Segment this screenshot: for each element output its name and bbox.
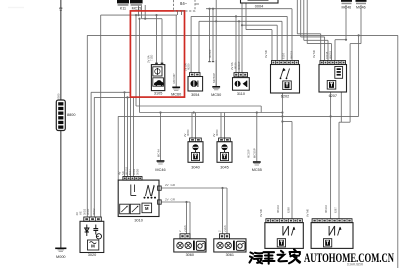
svg-text:VE: VE: [78, 211, 82, 215]
svg-text:M6102: M6102: [276, 205, 280, 213]
svg-text:6202: 6202: [281, 94, 289, 98]
svg-text:3040: 3040: [191, 165, 199, 169]
svg-text:K11: K11: [120, 7, 126, 11]
svg-text:M: M: [145, 206, 149, 211]
svg-text:+VAN: +VAN: [223, 225, 227, 232]
svg-text:MC50P: MC50P: [237, 61, 241, 70]
svg-text:30D2: 30D2: [83, 208, 87, 215]
svg-text:713D: 713D: [150, 55, 154, 61]
svg-text:610S: 610S: [281, 53, 285, 59]
svg-text:30D2: 30D2: [132, 168, 136, 175]
svg-text:NR: NR: [121, 171, 125, 175]
svg-text:2V: 2V: [165, 183, 169, 187]
svg-text:6267: 6267: [334, 207, 338, 213]
svg-text:MC50P: MC50P: [212, 73, 216, 83]
svg-text:6207: 6207: [329, 94, 337, 98]
svg-text:3020: 3020: [88, 253, 96, 257]
svg-text:M050: M050: [186, 129, 190, 136]
svg-text:3110: 3110: [237, 92, 245, 96]
svg-text:M050: M050: [215, 129, 219, 136]
svg-text:MC46: MC46: [356, 6, 366, 10]
svg-text:16018: 16018: [325, 51, 329, 59]
svg-text:6V M0: 6V M0: [305, 208, 309, 217]
svg-text:D3ARJB5R: D3ARJB5R: [347, 263, 364, 267]
svg-text:B80: B80: [56, 93, 60, 98]
svg-text:M: M: [91, 244, 95, 249]
svg-text:MC60P: MC60P: [172, 73, 176, 83]
svg-text:M6102: M6102: [125, 167, 129, 175]
svg-text:M150: M150: [233, 62, 237, 69]
svg-text:84–: 84–: [180, 1, 188, 6]
svg-text:0004: 0004: [255, 5, 263, 9]
svg-text:6017: 6017: [128, 169, 132, 175]
svg-text:6268: 6268: [287, 207, 291, 213]
svg-text:6V M0: 6V M0: [259, 208, 263, 217]
svg-text:MC46: MC46: [342, 6, 352, 10]
svg-text:MC55P: MC55P: [247, 149, 251, 158]
svg-text:M250: M250: [186, 63, 190, 70]
svg-text:6V M0: 6V M0: [312, 49, 316, 58]
svg-text:3105: 3105: [154, 92, 162, 96]
svg-text:+VAN: +VAN: [183, 225, 187, 232]
svg-text:3045: 3045: [220, 165, 228, 169]
svg-text:M6018: M6018: [289, 51, 293, 59]
svg-text:3010: 3010: [134, 218, 142, 222]
svg-text:3054: 3054: [191, 93, 199, 97]
svg-text:MC55P: MC55P: [253, 148, 257, 158]
svg-text:4V: 4V: [118, 171, 122, 175]
svg-text:MC55: MC55: [252, 168, 262, 172]
svg-text:MC4A: MC4A: [156, 149, 160, 157]
svg-text:MC50: MC50: [211, 93, 221, 97]
svg-text:M302: M302: [92, 208, 96, 215]
svg-text:M6102: M6102: [324, 205, 328, 213]
svg-text:MC60: MC60: [171, 92, 181, 96]
svg-text:MC50P: MC50P: [208, 49, 212, 58]
svg-text:3060: 3060: [186, 253, 194, 257]
svg-text:6V M0: 6V M0: [264, 49, 268, 58]
svg-text:30D0: 30D0: [135, 168, 139, 175]
svg-text:2V: 2V: [165, 198, 169, 202]
svg-text:MC15: MC15: [132, 7, 142, 11]
svg-text:M6018: M6018: [329, 51, 333, 59]
svg-text:M000: M000: [56, 255, 66, 259]
svg-text:MC46: MC46: [155, 168, 165, 172]
svg-text:3061: 3061: [226, 253, 234, 257]
svg-text:8800: 8800: [67, 113, 75, 117]
svg-text:30D0: 30D0: [86, 208, 90, 215]
